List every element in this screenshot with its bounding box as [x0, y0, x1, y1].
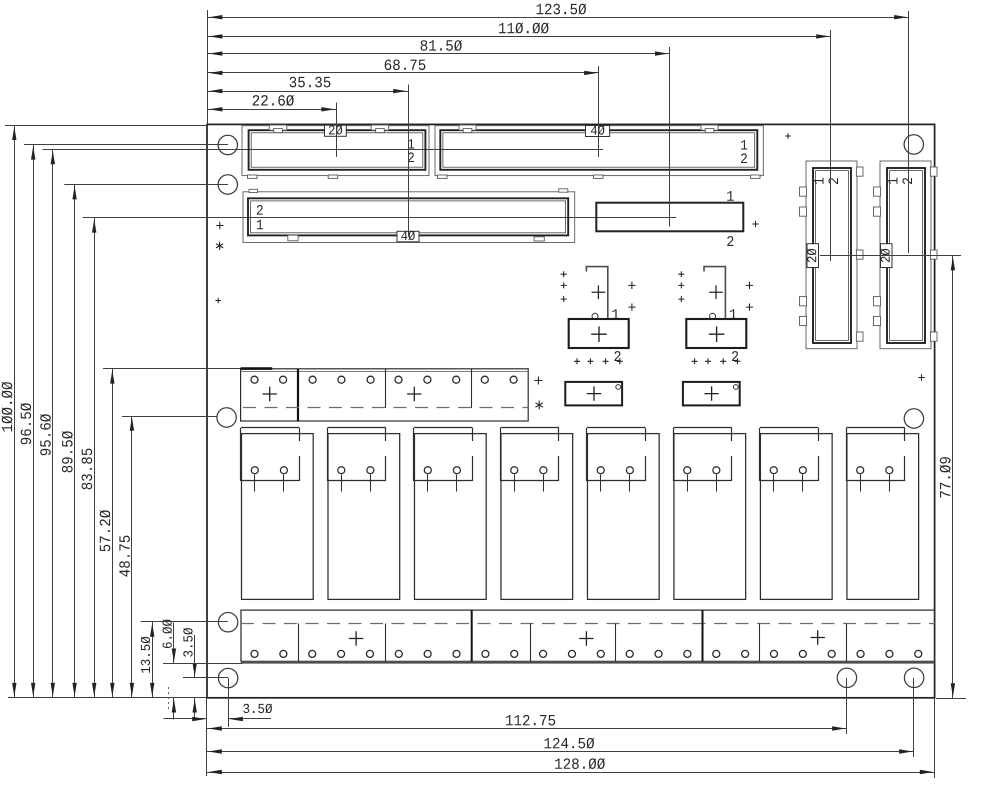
polarity mark + in TB1 section 1 — [263, 387, 277, 401]
dimension 35.35 (top, from board left edge) — [208, 77, 408, 94]
extension line y=149.4 to feature — [42, 149, 603, 151]
dimension 95.60 (left, from board bottom edge) — [40, 149, 55, 697]
terminal strip TB1 (left middle) — [241, 369, 529, 421]
baseline extension at board bottom (left dims) — [8, 697, 207, 699]
connector J6 pin-count label 20 — [881, 244, 893, 268]
extension line x=336.2 down to feature — [336, 103, 338, 158]
relay K7 footprint — [760, 428, 833, 600]
star mark below-left of J3 — [216, 242, 223, 250]
dimension 124.50 (bottom) — [207, 738, 914, 754]
connector J1 pin-count label 20 — [325, 125, 347, 136]
relay K6 footprint — [673, 428, 745, 600]
mounting hole H4 — [217, 408, 236, 427]
mounting hole H2 — [218, 175, 237, 194]
component U2 pin 1 label — [730, 309, 737, 319]
terminal strip TB2 pads row — [251, 650, 922, 657]
extension line y=416.0 to feature — [122, 416, 217, 418]
dimension 112.75 (bottom) — [207, 715, 847, 731]
relay K3 footprint — [414, 428, 487, 600]
connector J6 pin 1 label — [888, 178, 897, 184]
extension line x=909.0 down to feature — [908, 11, 910, 253]
dimension 48.75 (left, from board bottom edge) — [119, 416, 134, 698]
fiducial + left edge mid — [215, 298, 221, 304]
connector J5 pin 2 label — [828, 178, 838, 184]
dimension 96.50 (left, from board bottom edge) — [20, 145, 35, 698]
connector J2 pin 1 label — [741, 140, 747, 149]
connector J1 20-pin header (top left) — [242, 125, 429, 178]
extension line x=831.0 down to feature — [830, 30, 832, 261]
mounting hole H7 — [218, 668, 237, 687]
dash-dot centerline mark near baseline — [168, 687, 170, 709]
component U1 pin 2 label — [614, 351, 620, 361]
dimension 13.50 (left, from board bottom edge) — [141, 622, 155, 698]
component U1 base rectangle — [569, 319, 629, 348]
connector J5 pin-count label 20 — [807, 244, 819, 268]
extension line from bottom-right hole down — [913, 678, 915, 757]
dimension 3.50 (left, arrows outside) — [183, 628, 197, 720]
fiducial + right of TB1 — [534, 377, 542, 385]
connector J6 20-pin header (right, vertical) — [874, 161, 938, 349]
PCB board outline — [207, 124, 935, 697]
connector J3 pin 1 label — [257, 220, 263, 229]
dimension 6.00 (left, arrows outside) — [162, 619, 176, 719]
relay K2 footprint — [327, 428, 399, 600]
component U1 body bracket — [586, 267, 607, 320]
dimension 22.60 (top, from board left edge) — [208, 95, 337, 112]
fiducial + left of J3 — [216, 222, 223, 229]
polarity mark + TB2 left — [349, 631, 363, 645]
dimension 57.20 (left, from board bottom edge) — [100, 369, 115, 698]
relay K5 footprint — [587, 428, 660, 600]
connector J2 pin 2 label — [741, 153, 747, 163]
polarity mark + TB2 middle — [579, 631, 593, 645]
board right edge extended below — [934, 698, 936, 778]
dimension 81.50 (top, from board left edge) — [208, 40, 670, 56]
extension line x=408.0 down to feature — [408, 85, 410, 237]
dimension 100.00 (left, from board bottom edge) — [2, 125, 17, 698]
connector J6 pin 2 label — [902, 178, 912, 184]
component U2 base rectangle — [686, 319, 746, 348]
dimension 3.50 (bottom-left hole offset) — [164, 704, 273, 722]
extension line y=621.9 to feature — [141, 621, 228, 623]
fiducial + below J6 — [918, 374, 924, 380]
connector J4 pin 2 label — [727, 236, 733, 246]
connector J2 pin-count label 40 — [586, 126, 610, 137]
connector J3 pin-count label 40 — [397, 231, 419, 242]
polarity mark + TB2 right — [811, 630, 825, 644]
fiducial + right of J4 — [752, 221, 758, 227]
component U2 pin 2 label — [732, 351, 738, 361]
extension line y=125.2 to feature — [5, 125, 207, 127]
relay K4 footprint — [500, 428, 572, 600]
extension line from bottom hole x=846.9 down — [846, 678, 848, 734]
extension line x=669.8 down to feature — [669, 47, 671, 227]
extension line y=663.3 to feature — [163, 663, 242, 665]
connector J1 pin 1 label — [408, 139, 414, 148]
extension line y=368.8 to feature — [103, 368, 244, 370]
relay K1 footprint — [241, 428, 314, 600]
extension line y=255.6 across right connectors — [820, 255, 961, 257]
component C2 rectangle — [683, 382, 740, 406]
mounting hole H8 — [837, 668, 856, 687]
terminal strip TB2 (bottom) — [241, 610, 935, 662]
connector J3 40-pin header (row 2) — [243, 189, 575, 243]
connector J3 pin 2 label — [257, 205, 263, 215]
extension line x=599.0 down to feature — [598, 66, 600, 157]
mounting hole H5 — [904, 409, 923, 428]
star mark right of TB1 — [535, 401, 543, 410]
component C1 rectangle — [565, 382, 622, 406]
polarity mark + in TB1 section 3 — [407, 387, 421, 401]
component U1 pad marks — [561, 271, 636, 364]
extension line y=184.6 to feature — [64, 184, 228, 186]
board left edge extended below — [206, 698, 208, 776]
connector J2 40-pin header (top) — [435, 125, 763, 178]
connector J4 pin 1 label — [727, 191, 734, 201]
dimension 123.50 (top, from board left edge) — [208, 4, 909, 20]
extension line y=677.8 to feature — [183, 677, 228, 679]
dimension 77.09 (right side) — [940, 256, 955, 698]
dimension 83.85 (left, from board bottom edge) — [82, 218, 97, 698]
relay K8 footprint — [846, 428, 918, 600]
extension line y=217.8 to feature — [83, 217, 676, 219]
extension line from board top-left corner upward — [207, 10, 209, 124]
dimension 89.50 (left, from board bottom edge) — [62, 185, 77, 698]
component U2 pad marks — [678, 271, 753, 364]
component U2 body bracket — [704, 267, 725, 320]
dimension 128.00 (bottom, board width) — [207, 758, 935, 774]
mounting hole H6 — [218, 613, 237, 632]
component U1 pin 1 label — [612, 309, 619, 319]
extension line from bottom-left hole down — [228, 678, 230, 727]
terminal strip TB1 pads row — [251, 376, 517, 383]
fiducial + right of J2 — [785, 133, 791, 139]
mounting hole H1 — [218, 135, 237, 154]
connector J1 pin 2 label — [408, 152, 414, 162]
connector J5 pin 1 label — [814, 178, 823, 184]
connector J4 rectangular header — [596, 203, 743, 232]
mounting hole H3 — [904, 135, 923, 154]
extension tick at board bottom right — [936, 698, 966, 700]
dimension 68.75 (top, from board left edge) — [208, 60, 599, 76]
dimension 110.00 (top, from board left edge) — [208, 23, 831, 39]
connector J5 20-pin header (right, vertical) — [800, 161, 864, 349]
extension line y=144.8 to feature — [24, 144, 228, 146]
mounting hole H9 — [904, 668, 923, 687]
